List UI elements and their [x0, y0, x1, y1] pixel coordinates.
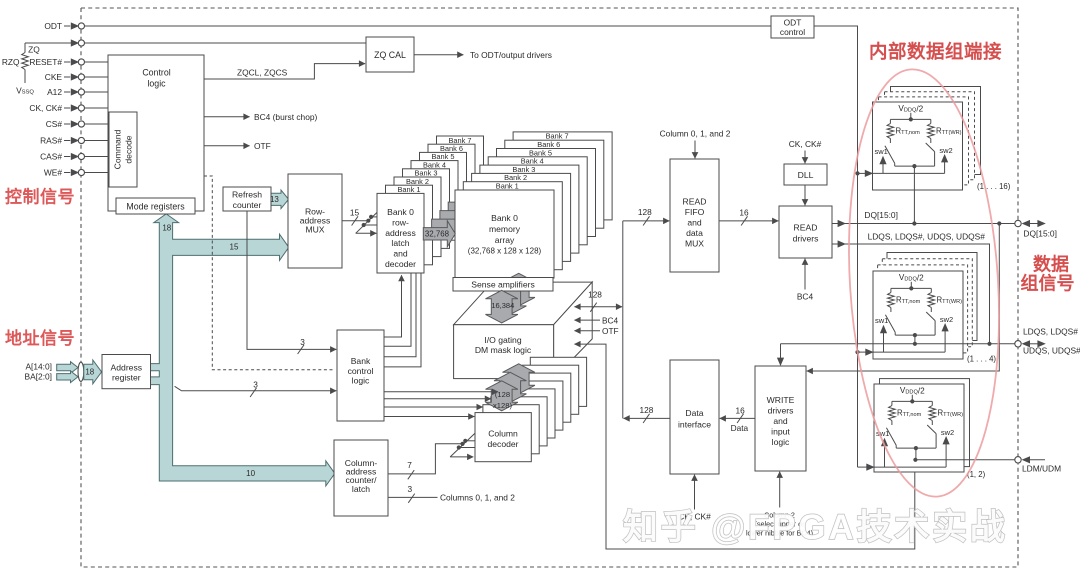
svg-text:3: 3 — [407, 484, 412, 494]
junction dots on ODT vertical rail — [855, 171, 859, 175]
wire: OTF output of Control logic — [204, 145, 250, 147]
gray arrow echoes behind (128 x128) — [503, 364, 535, 394]
svg-text:FIFO: FIFO — [685, 207, 705, 217]
svg-text:(32,768 x 128 x 128): (32,768 x 128 x 128) — [468, 247, 542, 256]
svg-text:16: 16 — [739, 207, 749, 217]
gray bus arrow echoes behind 32,768 — [448, 195, 480, 221]
resistor RTT,nom in termination block DM — [889, 401, 896, 425]
svg-text:18: 18 — [85, 367, 94, 376]
wire: 7 column address to column decoders — [388, 444, 462, 474]
svg-text:drivers: drivers — [768, 406, 794, 416]
wire: ODT enable line with switch-control arrows in termination block DQ — [873, 154, 949, 173]
wire: DQS from READ drivers, routed down to DQS pad line — [832, 244, 990, 344]
teal bus: trunk with 18-arrow to Mode registers, 15 branch to Row-address MUX, 10 branch to column counter, register stubs — [151, 214, 335, 486]
wire: CK into DLL — [804, 151, 806, 164]
svg-text:Bank: Bank — [351, 356, 371, 366]
input pin WE#: label, wire, buffer triangle and pad circle — [44, 168, 109, 178]
wire: VDDQ/2 stub and rail in termination block DM — [892, 395, 932, 404]
svg-text:组信号: 组信号 — [1021, 273, 1075, 294]
bus-merge pill on chip boundary — [78, 362, 84, 381]
teal arrow: merged 18-bit address into Address register — [84, 360, 102, 384]
svg-text:Column: Column — [488, 428, 518, 438]
block: WRITE drivers and input logic — [755, 366, 806, 471]
wire: center tap of termination block DM to pad line — [915, 448, 917, 460]
svg-text:data: data — [686, 228, 703, 238]
svg-text:sw2: sw2 — [941, 428, 954, 437]
input pin ODT: label, wire, buffer triangle and pad circle — [44, 21, 771, 31]
svg-text:LDM/UDM: LDM/UDM — [1022, 463, 1061, 473]
svg-text:RAS#: RAS# — [40, 136, 62, 146]
svg-text:DLL: DLL — [798, 170, 814, 180]
svg-text:LDQS, LDQS#, UDQS, UDQS#: LDQS, LDQS#, UDQS, UDQS# — [868, 232, 986, 242]
input pin A12: label, wire, buffer triangle and pad circle — [47, 87, 108, 97]
svg-text:ZQ: ZQ — [28, 44, 40, 54]
wire: ODT enable line with switch-control arrows in termination block DQS — [873, 323, 949, 352]
svg-text:x128): x128) — [493, 401, 512, 410]
wire: 128 bus to READ FIFO — [623, 220, 669, 222]
svg-text:A12: A12 — [47, 87, 62, 97]
svg-text:BA[2:0]: BA[2:0] — [25, 371, 52, 381]
gray double arrow (128 x128) I/O gating to column decoder — [486, 381, 518, 411]
termination circuit termination block DQ: stacked outline boxes — [873, 87, 981, 191]
resistor RTT(WR) in termination block DM — [929, 401, 936, 425]
svg-text:DQ[15:0]: DQ[15:0] — [1023, 228, 1057, 238]
junction dots on DQS line — [913, 342, 917, 346]
block: I/O gating / DM mask logic (3D slab) — [454, 282, 593, 379]
svg-text:Bank 1: Bank 1 — [397, 185, 420, 194]
block: Bank 0 row-address latch and decoder — [377, 193, 424, 273]
svg-text:Command: Command — [113, 129, 123, 169]
svg-text:address: address — [385, 228, 416, 238]
wire: DQS pad line to WRITE drivers — [777, 344, 1015, 366]
switch sw1 in termination block DQ — [885, 146, 895, 166]
svg-text:and: and — [687, 218, 702, 228]
external input arrow LDM/UDM — [1022, 456, 1045, 463]
input pin CK, CK#: label, wire, buffer triangle and pad circle — [29, 103, 108, 113]
svg-text:ODT: ODT — [44, 21, 62, 31]
svg-text:数据: 数据 — [1033, 254, 1069, 275]
svg-text:and: and — [393, 249, 408, 259]
wire: DLL to READ drivers — [804, 185, 806, 205]
external bidirectional arrows DQ — [1022, 220, 1046, 227]
svg-text:decoder: decoder — [385, 259, 416, 269]
block: Column decoder — [475, 413, 531, 462]
svg-text:decoder: decoder — [487, 439, 518, 449]
svg-text:LDQS, LDQS#: LDQS, LDQS# — [1023, 326, 1078, 336]
block: Row-address MUX — [288, 174, 342, 268]
svg-text:3: 3 — [300, 337, 305, 347]
wire: DM mask from LDM/UDM termination to I/O gating — [575, 344, 915, 549]
svg-text:sw1: sw1 — [875, 147, 888, 156]
block: Data interface — [670, 360, 719, 474]
svg-text:UDQS, UDQS#: UDQS, UDQS# — [1023, 346, 1080, 356]
svg-text:array: array — [495, 235, 515, 245]
resistor RTT(WR) in termination block DQS — [928, 288, 935, 312]
block: Bank 0 memory array — [455, 190, 554, 278]
svg-text:RESET#: RESET# — [29, 57, 62, 67]
svg-text:3: 3 — [253, 379, 258, 389]
svg-text:18: 18 — [162, 224, 171, 233]
svg-text:Refresh: Refresh — [232, 190, 262, 200]
wire: VDDQ/2 stub and rail in termination block DQ — [890, 113, 930, 122]
block: ZQ CAL — [366, 37, 414, 72]
svg-text:Bank 0: Bank 0 — [491, 213, 518, 223]
svg-text:control: control — [348, 366, 374, 376]
svg-text:BC4: BC4 — [797, 291, 814, 301]
svg-text:CK, CK#: CK, CK# — [789, 139, 822, 149]
wire: bottom rail in termination block DQS — [895, 334, 935, 336]
wires: Bank control logic to column decoder stack — [384, 392, 498, 417]
svg-text:(1 . . . 4): (1 . . . 4) — [967, 355, 996, 364]
svg-text:15: 15 — [350, 208, 360, 218]
svg-text:decode: decode — [124, 135, 134, 163]
block: Control logic U-CTRL — [108, 55, 204, 211]
wire: column select into READ FIFO — [694, 141, 696, 159]
svg-text:Sense amplifiers: Sense amplifiers — [471, 280, 535, 290]
svg-text:sw2: sw2 — [939, 146, 952, 155]
svg-text:MUX: MUX — [305, 225, 324, 235]
svg-text:13: 13 — [270, 195, 279, 204]
svg-text:控制信号: 控制信号 — [5, 187, 75, 207]
svg-text:drivers: drivers — [793, 234, 819, 244]
svg-text:7: 7 — [407, 460, 412, 470]
svg-text:CK, CK#: CK, CK# — [29, 103, 62, 113]
svg-text:16,384: 16,384 — [491, 301, 514, 310]
pad LDM/UDM on chip boundary — [1015, 457, 1021, 463]
svg-text:latch: latch — [391, 238, 409, 248]
fan-out of column select to decoder stack — [450, 434, 475, 457]
svg-text:地址信号: 地址信号 — [5, 328, 75, 348]
svg-text:Mode registers: Mode registers — [126, 202, 185, 212]
block: Column-address counter/latch — [334, 440, 388, 516]
block: Refresh counter — [223, 187, 271, 211]
wire: ZQCL, ZQCS from Control logic to ZQ CAL — [204, 64, 365, 79]
switch sw2 in termination block DQ — [926, 143, 935, 166]
switch sw2 in termination block DQS — [926, 312, 935, 335]
input pin ZQ: label, wire, buffer triangle and pad circle — [71, 39, 366, 46]
svg-text:Data: Data — [731, 423, 749, 433]
wire stub: BC4 into I/O gating — [575, 319, 601, 321]
wire: 15 from Row-address MUX to Bank row-address latches — [342, 220, 368, 222]
teal bus: 13 arrow from Refresh counter to Row-address MUX — [268, 190, 288, 209]
wire: center tap of termination block DQS to pad line — [914, 335, 916, 344]
svg-text:Columns 0, 1, and 2: Columns 0, 1, and 2 — [440, 493, 515, 503]
wire: DQ[15:0] from READ drivers to pad — [832, 223, 1015, 225]
svg-text:READ: READ — [794, 223, 818, 233]
svg-text:ZQCL, ZQCS: ZQCL, ZQCS — [237, 68, 288, 78]
switch sw1 in termination block DM — [886, 428, 896, 448]
svg-text:WRITE: WRITE — [767, 395, 795, 405]
svg-text:Bank 0: Bank 0 — [387, 207, 414, 217]
svg-text:16: 16 — [735, 405, 745, 415]
wires: Bank control logic up to row-address latch stack — [384, 273, 421, 367]
stack: column decoder boxes behind — [483, 357, 587, 454]
wire: ZQ CAL output to ODT/output drivers — [414, 54, 463, 56]
pad DQ[15:0] on chip boundary — [1015, 220, 1021, 226]
svg-text:and: and — [773, 416, 788, 426]
svg-text:32,768: 32,768 — [425, 229, 450, 238]
svg-text:BC4: BC4 — [602, 315, 619, 325]
wire: VDDQ/2 stub and rail in termination block DQS — [891, 282, 931, 291]
red ellipse around termination blocks — [837, 65, 1011, 501]
wire: Refresh counter down to Bank control logic (3) — [247, 211, 336, 349]
svg-text:interface: interface — [678, 420, 711, 430]
svg-text:Control: Control — [142, 68, 170, 78]
wire: ZQ pin to buffer — [25, 42, 71, 44]
svg-text:RZQ: RZQ — [2, 57, 20, 67]
svg-text:(1 . . . 16): (1 . . . 16) — [977, 182, 1011, 191]
svg-text:control: control — [780, 27, 805, 37]
svg-text:register: register — [112, 373, 141, 383]
wire: LDM/UDM pad line — [916, 459, 1015, 461]
svg-text:Bank 1: Bank 1 — [496, 182, 519, 191]
svg-text:Address: Address — [111, 363, 143, 373]
wire stub: OTF into I/O gating — [575, 330, 601, 332]
junction dots on DQ line — [912, 221, 916, 225]
svg-text:I/O gating: I/O gating — [484, 335, 521, 345]
wire: BC4 into READ drivers — [804, 259, 806, 290]
junction dot on DM line — [913, 458, 917, 462]
wire: BC4 (burst chop) output of Control logic — [204, 116, 250, 118]
block: Mode registers — [116, 198, 195, 214]
wire: column 2 select into WRITE drivers — [779, 472, 781, 508]
block: Command decode (inside Control logic) — [109, 112, 137, 187]
termination circuit termination block DM: stacked outline boxes — [874, 379, 970, 472]
wire: DQ feedback to WRITE drivers input — [807, 224, 1000, 372]
block: DLL — [784, 164, 827, 185]
svg-text:(128: (128 — [495, 390, 510, 399]
teal arrow: A[14:0] input — [57, 362, 78, 374]
wire: 128-bit vertical data bus — [622, 221, 624, 419]
svg-text:15: 15 — [230, 242, 239, 251]
wire: ODT feed into DQS termination block — [858, 351, 867, 353]
resistor RTT,nom in termination block DQ — [887, 119, 894, 143]
svg-text:counter: counter — [233, 200, 262, 210]
svg-text:logic: logic — [772, 437, 790, 447]
svg-text:A[14:0]: A[14:0] — [25, 361, 52, 371]
teal arrow: BA[2:0] input — [57, 371, 78, 383]
input pin RESET#: label, wire, buffer triangle and pad circle — [29, 57, 108, 67]
block: Address register — [102, 355, 151, 389]
wire: ODT enable line with switch-control arrows in termination block DM — [874, 436, 950, 467]
svg-text:Column 0, 1, and 2: Column 0, 1, and 2 — [660, 128, 731, 138]
wire: ODT feed into DQ termination block — [858, 172, 867, 174]
external bidirectional arrows DQS — [1022, 340, 1046, 347]
svg-text:logic: logic — [147, 79, 166, 89]
wire: ODT feed into DM termination block — [858, 466, 868, 468]
wire: center tap of termination block DQ to pad line — [913, 166, 915, 223]
svg-text:latch: latch — [352, 484, 370, 494]
input pin CAS#: label, wire, buffer triangle and pad circle — [40, 152, 109, 162]
resistor RTT(WR) in termination block DQ — [928, 119, 935, 143]
input pin RAS#: label, wire, buffer triangle and pad circle — [40, 136, 109, 146]
svg-text:BC4 (burst chop): BC4 (burst chop) — [254, 112, 318, 122]
svg-text:OTF: OTF — [254, 141, 271, 151]
switch sw2 in termination block DM — [927, 425, 936, 448]
svg-text:知乎 @FPGA技术实战: 知乎 @FPGA技术实战 — [623, 508, 1008, 547]
switch sw1 in termination block DQS — [885, 315, 895, 335]
block: READ drivers — [779, 206, 832, 258]
svg-text:READ: READ — [683, 197, 707, 207]
label Column 2 select nibble below WRITE drivers — [746, 511, 813, 538]
svg-text:Data: Data — [685, 408, 703, 418]
svg-text:内部数据组端接: 内部数据组端接 — [869, 41, 1002, 62]
svg-text:128: 128 — [639, 405, 653, 415]
stack: Bank 7..1 memory array boxes — [463, 132, 612, 270]
block: READ FIFO and data MUX — [670, 159, 719, 272]
svg-text:CKE: CKE — [45, 72, 63, 82]
svg-text:logic: logic — [352, 376, 370, 386]
gray bus arrow 32,768 from row latch to memory array — [423, 221, 455, 247]
svg-text:OTF: OTF — [602, 326, 619, 336]
wire: 16 READ FIFO to READ drivers — [719, 220, 778, 222]
svg-text:sw2: sw2 — [940, 315, 953, 324]
svg-text:To ODT/output drivers: To ODT/output drivers — [470, 50, 552, 60]
block: Bank control logic — [337, 330, 384, 421]
wire: bank address 3 from address bus to Bank control logic — [175, 386, 337, 391]
svg-text:input: input — [771, 427, 790, 437]
block: Sense amplifiers — [453, 278, 553, 292]
input pin CS#: label, wire, buffer triangle and pad circle — [46, 119, 109, 129]
svg-text:ZQ CAL: ZQ CAL — [374, 50, 406, 60]
wire: 128 Data interface to data bus — [624, 417, 670, 419]
pad LDQS/UDQS on chip boundary — [1015, 341, 1021, 347]
svg-text:CAS#: CAS# — [40, 152, 62, 162]
wire: bottom rail in termination block DM — [896, 447, 936, 449]
stack: Bank 7..1 row-address latch boxes — [386, 136, 484, 265]
fan-out of row address to 8 bank latches (diagonal with taps) — [356, 212, 378, 233]
termination circuit termination block DQS: stacked outline boxes — [873, 253, 977, 360]
wire: bottom rail in termination block DQ — [895, 165, 935, 167]
svg-text:128: 128 — [588, 289, 602, 299]
svg-text:DM mask logic: DM mask logic — [475, 345, 532, 355]
input pin CKE: label, wire, buffer triangle and pad circle — [45, 72, 108, 82]
block: ODT control — [771, 16, 814, 38]
svg-text:sw1: sw1 — [875, 316, 888, 325]
svg-text:CS#: CS# — [46, 119, 63, 129]
svg-text:row-: row- — [392, 217, 409, 227]
dashed wire: Control logic to Bank control logic — [204, 176, 335, 370]
svg-text:128: 128 — [638, 207, 652, 217]
gray arrow echoes behind 16,384 — [503, 273, 535, 306]
svg-text:10: 10 — [246, 469, 255, 478]
svg-text:WE#: WE# — [44, 168, 62, 178]
resistor RTT,nom in termination block DQS — [888, 288, 895, 312]
resistor RZQ external calibration resistor — [22, 43, 29, 83]
svg-text:MUX: MUX — [685, 239, 704, 249]
wire: CK into Data interface — [694, 475, 696, 510]
wire: 16 Data from WRITE drivers to Data interface — [720, 417, 755, 419]
svg-text:memory: memory — [489, 224, 521, 234]
svg-text:DQ[15:0]: DQ[15:0] — [864, 210, 898, 220]
wire: ODT control to right termination rail — [814, 26, 858, 467]
wire: 128 bidirectional I/O gating to bus — [575, 306, 623, 308]
gray double arrow 16,384 sense amps to I/O gating — [486, 290, 518, 323]
wire: 3 Columns 0,1,2 output — [388, 496, 438, 498]
